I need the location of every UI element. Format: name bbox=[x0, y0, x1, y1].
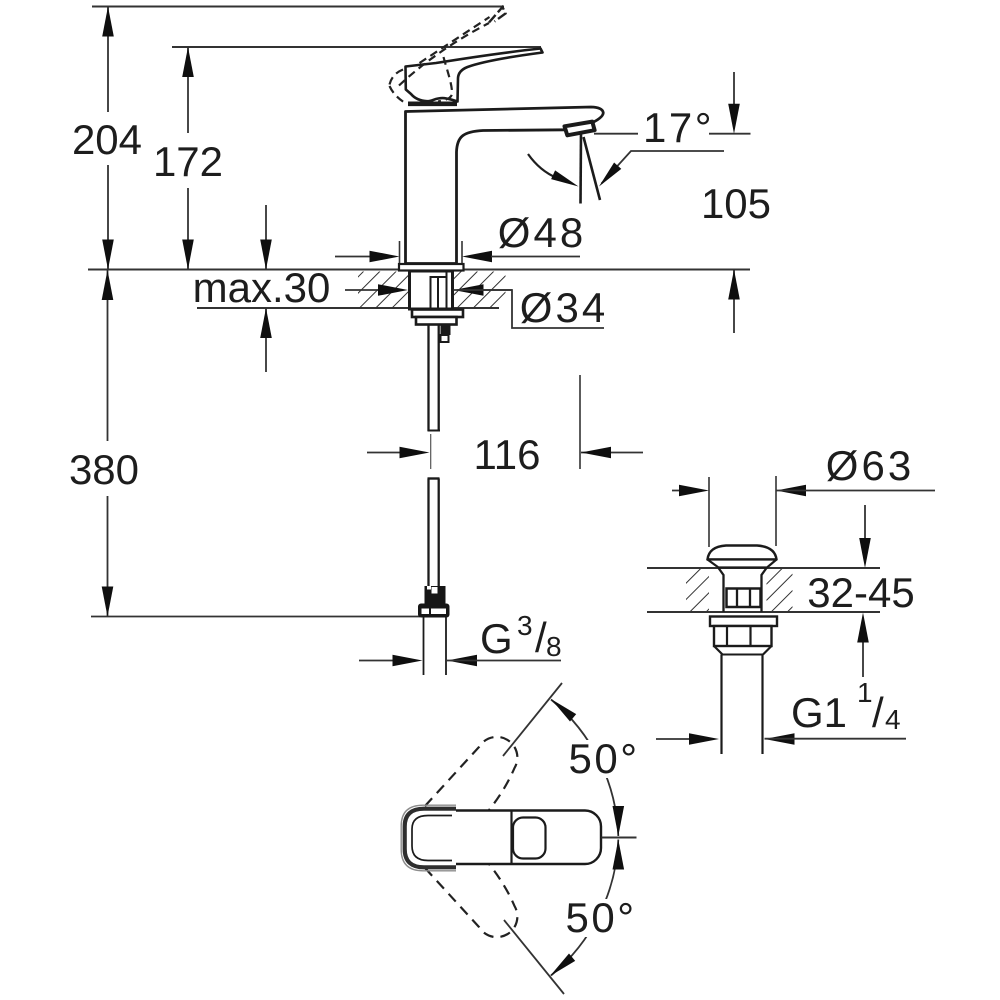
svg-text:105: 105 bbox=[701, 180, 771, 227]
faucet handle base dark band bbox=[408, 102, 457, 107]
faucet handle raised dashed knuckle arc lower bbox=[390, 86, 405, 103]
dimension diam48 extension lines bbox=[399, 241, 401, 263]
svg-text:380: 380 bbox=[69, 446, 139, 493]
dimension 105 bottom arrow bbox=[733, 270, 735, 333]
faucet handle solid bbox=[406, 49, 543, 102]
svg-text:50°: 50° bbox=[565, 894, 636, 941]
dimension 105 top arrow bbox=[733, 72, 735, 106]
dimension diam63 arrows bbox=[672, 490, 690, 492]
dimension 116 left arrow bbox=[367, 452, 400, 454]
drain pipe bbox=[720, 655, 722, 755]
angle arc lower bbox=[551, 840, 618, 976]
drain cap skirt bbox=[708, 560, 777, 568]
curved arrow stream bbox=[528, 154, 557, 178]
handle top view dashed rotated up bbox=[425, 737, 517, 810]
label 50 deg lower bbox=[563, 899, 639, 937]
svg-text:17°: 17° bbox=[643, 104, 714, 151]
drain flange bbox=[710, 617, 777, 627]
dimension diam34 leader bbox=[482, 290, 604, 328]
hose connector nut G38 bbox=[418, 604, 450, 618]
water stream vertical line bbox=[579, 132, 582, 204]
handle top view pad bbox=[513, 818, 546, 859]
drain taper bbox=[714, 646, 723, 655]
svg-text:1: 1 bbox=[857, 677, 873, 708]
wire bottom reference line 380 bbox=[91, 616, 420, 618]
dimension 32-45 bottom arrow bbox=[862, 641, 864, 677]
dimension G114 right arrow bbox=[765, 733, 795, 745]
svg-text:204: 204 bbox=[72, 116, 142, 163]
svg-text:max.30: max.30 bbox=[193, 264, 331, 311]
svg-text:Ø34: Ø34 bbox=[520, 284, 608, 331]
svg-text:172: 172 bbox=[153, 138, 223, 185]
handle top view inner cap line bbox=[412, 816, 452, 861]
node drain counter top line bbox=[647, 567, 880, 569]
dimension 32-45 top arrow bbox=[864, 505, 866, 540]
dimension diam63 extension lines bbox=[708, 477, 710, 547]
faucet body outline bbox=[406, 107, 604, 264]
hatch drain left bbox=[686, 569, 709, 611]
dimension G38 arrows bbox=[359, 660, 393, 662]
dimension diam34 arrows bbox=[345, 289, 380, 291]
angle leg upper bbox=[503, 683, 562, 756]
faucet base plate bbox=[399, 264, 464, 271]
water stream angled line bbox=[584, 137, 601, 200]
drain hex nut bbox=[714, 626, 772, 646]
svg-text:G: G bbox=[480, 615, 513, 662]
faucet handle raised dashed knuckle arc upper bbox=[390, 70, 404, 85]
svg-text:50°: 50° bbox=[568, 735, 639, 782]
hose upper segment bbox=[427, 325, 429, 432]
handle top view rear cap thick bbox=[405, 809, 456, 868]
handle top view dashed rotated down bbox=[425, 864, 517, 937]
label 17 deg underline bbox=[709, 133, 751, 135]
angle arc upper bbox=[551, 700, 618, 837]
svg-text:Ø48: Ø48 bbox=[498, 209, 586, 256]
wire reference line 172 bbox=[172, 46, 541, 48]
handle top view rear cap outer thin line bbox=[401, 805, 456, 871]
drain neck left bbox=[719, 568, 724, 612]
node countertop line bbox=[88, 269, 750, 271]
svg-text:4: 4 bbox=[885, 704, 901, 735]
svg-text:8: 8 bbox=[546, 631, 562, 662]
dimension 172 vertical line bbox=[187, 47, 189, 133]
faucet handle raised dashed right curve bbox=[438, 57, 452, 102]
label 50 deg upper bbox=[566, 740, 642, 778]
svg-text:32-45: 32-45 bbox=[807, 569, 914, 616]
drain cap dome bbox=[708, 546, 777, 560]
faucet aerator bbox=[565, 122, 595, 136]
label 17 deg leader left bbox=[594, 133, 638, 135]
faucet mounting nut tier1 bbox=[412, 310, 463, 318]
faucet handle raised dashed tip hook bbox=[489, 7, 506, 23]
centerline right of handle bbox=[602, 837, 637, 839]
dimension 116 right arrow bbox=[581, 452, 643, 454]
node counter bottom line bbox=[197, 307, 499, 309]
label 17 deg leader arrow bbox=[602, 151, 725, 184]
dimension 380 vertical line bbox=[107, 270, 109, 441]
hose tail tube bbox=[423, 618, 425, 676]
drain slot windows bbox=[727, 589, 761, 608]
hose stub right bbox=[441, 325, 451, 336]
faucet handle raised dashed blade line A bbox=[399, 23, 489, 86]
angle leg lower bbox=[504, 920, 564, 994]
hatch counter right bbox=[453, 272, 506, 308]
faucet handle raised dashed blade line B bbox=[420, 17, 490, 63]
svg-text:3: 3 bbox=[517, 610, 533, 641]
svg-text:/: / bbox=[872, 689, 884, 736]
dimension 204 vertical line bbox=[107, 7, 109, 113]
node drain counter bottom line bbox=[647, 611, 880, 613]
hose end fitting bbox=[425, 586, 446, 604]
svg-text:G1: G1 bbox=[791, 689, 847, 736]
dimension 116 extension line bbox=[579, 375, 581, 469]
drain neck right bbox=[762, 568, 767, 612]
faucet shank through counter bbox=[410, 271, 453, 309]
svg-text:Ø63: Ø63 bbox=[826, 442, 914, 489]
wire top reference line 204 bbox=[92, 6, 504, 8]
handle top view solid body bbox=[407, 811, 602, 865]
dimension max.30 arrows bbox=[265, 205, 267, 270]
hose break axis line bbox=[430, 434, 432, 469]
hose lower segment bbox=[428, 477, 440, 479]
hatch counter left bbox=[358, 272, 409, 308]
faucet mounting nut tier2 bbox=[416, 317, 457, 325]
dimension G114 left arrow bbox=[656, 738, 690, 740]
svg-text:116: 116 bbox=[474, 431, 541, 478]
dimension diam48 arrows bbox=[335, 256, 370, 258]
handle top view division line bbox=[510, 812, 512, 864]
hatch drain right bbox=[767, 569, 793, 611]
